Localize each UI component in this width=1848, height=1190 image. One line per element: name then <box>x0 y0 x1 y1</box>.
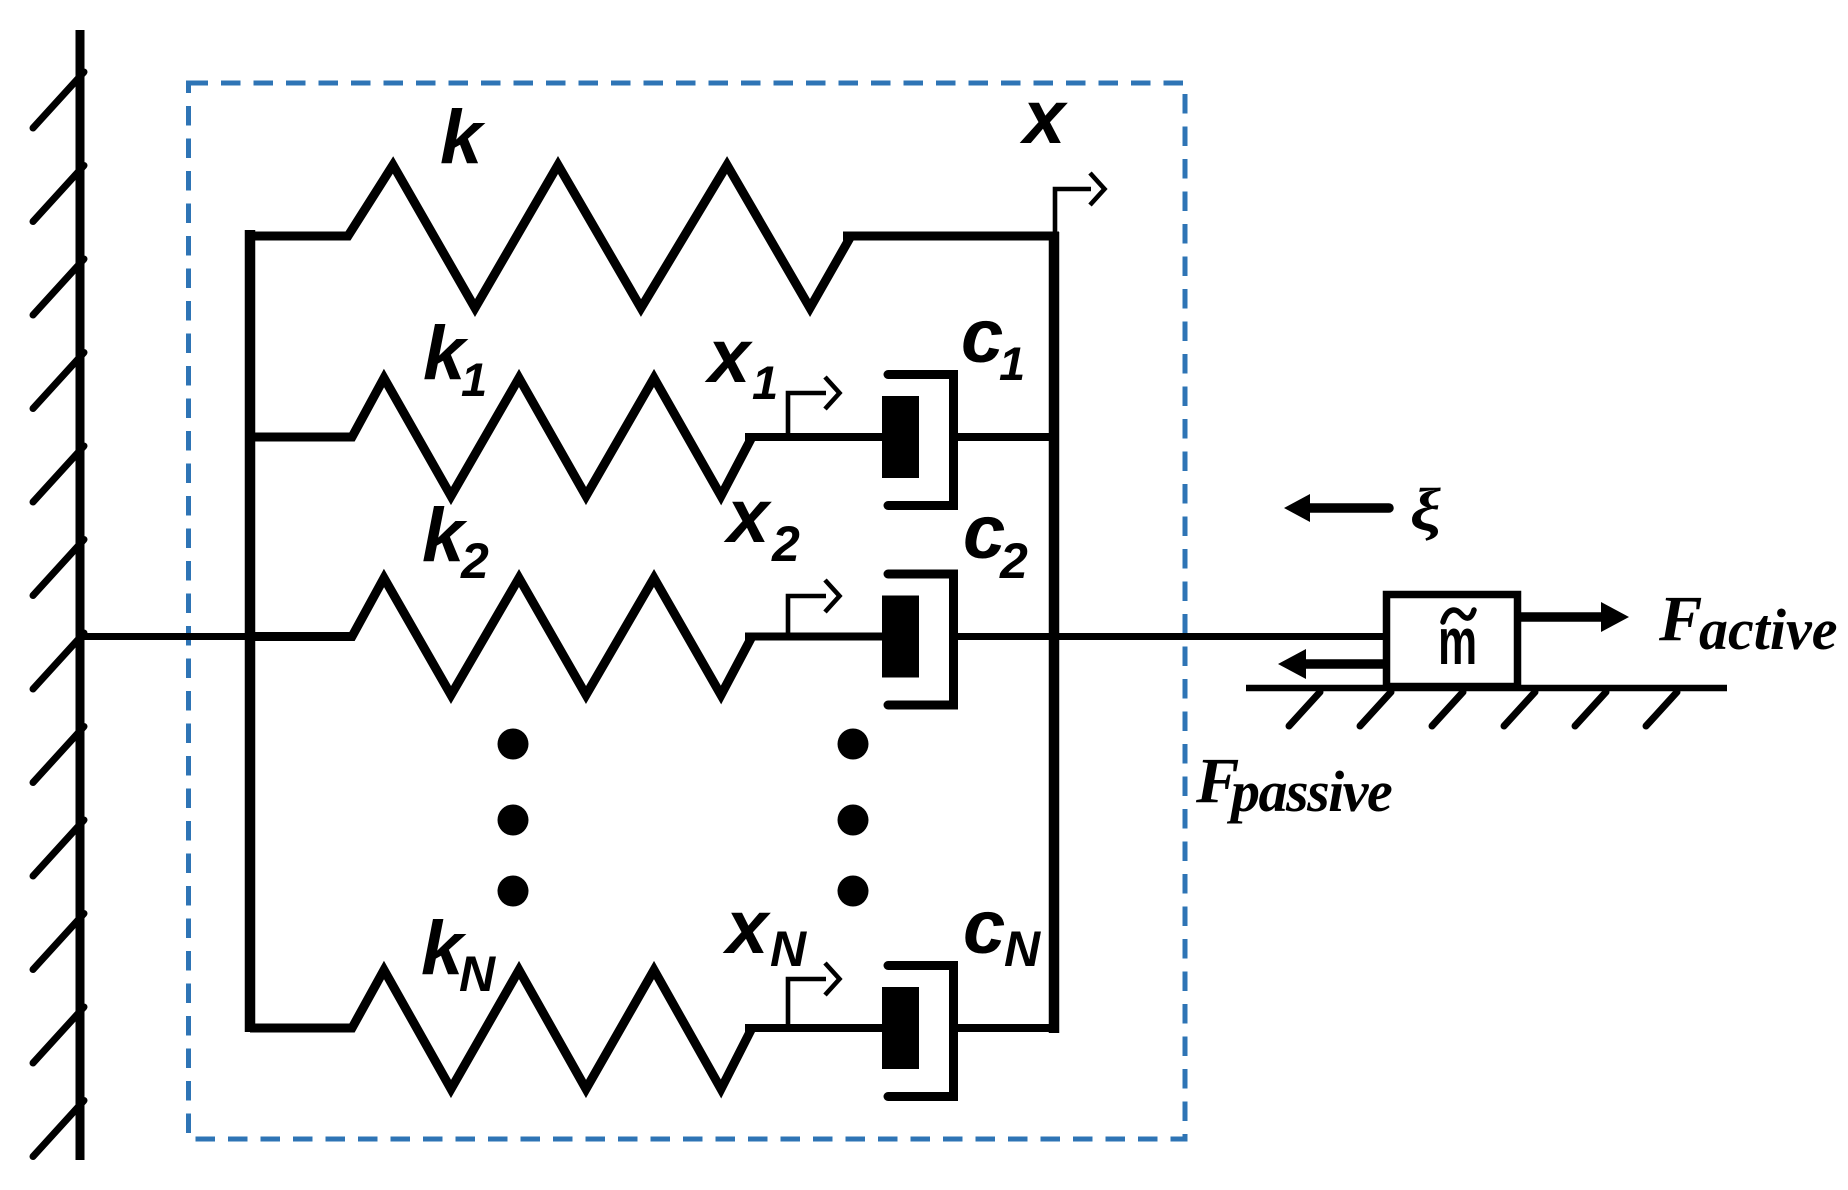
svg-text:1: 1 <box>752 356 778 409</box>
svg-text:k: k <box>440 95 486 180</box>
damper cN <box>882 966 954 1097</box>
arrow xi <box>1284 494 1389 522</box>
svg-text:c: c <box>963 885 1005 970</box>
wall <box>33 30 84 1160</box>
svg-text:2: 2 <box>460 533 489 589</box>
wire kN to damper cN <box>745 1024 884 1032</box>
node x2 arrow <box>788 580 840 634</box>
svg-text:x: x <box>704 314 753 399</box>
arrow F_passive <box>1278 649 1386 679</box>
node xN arrow <box>788 963 840 1026</box>
left bus bar <box>245 230 256 1032</box>
svg-text:c: c <box>961 294 1003 379</box>
svg-text:1: 1 <box>999 337 1025 390</box>
damper c2 <box>882 574 954 705</box>
damper c1 <box>882 375 954 506</box>
wire damper cN to right bar <box>954 1024 1055 1032</box>
label m~ <box>1438 604 1477 678</box>
svg-text:c: c <box>963 490 1005 575</box>
ellipsis dots right <box>838 729 869 907</box>
svg-text:F: F <box>1658 583 1702 655</box>
wire k1 to damper c1 <box>745 433 884 441</box>
svg-text:active: active <box>1699 597 1837 662</box>
spring kN <box>250 970 752 1089</box>
svg-text:N: N <box>459 946 496 1002</box>
spring k1 <box>250 378 752 496</box>
spring k <box>250 165 851 308</box>
wire damper c2 to mass <box>954 633 1387 640</box>
ground <box>1246 688 1727 726</box>
svg-text:x: x <box>1019 75 1068 160</box>
dashed boundary box <box>189 83 1186 1139</box>
node x1 arrow <box>788 377 840 435</box>
svg-text:N: N <box>1004 921 1041 977</box>
wire wall to left bar <box>80 633 250 640</box>
svg-text:ξ: ξ <box>1410 476 1441 543</box>
svg-text:2: 2 <box>999 533 1028 589</box>
wire spring k to right bar <box>843 232 1059 241</box>
wire damper c1 to right bar <box>954 433 1055 441</box>
wire k2 to damper c2 <box>745 633 884 641</box>
arrow F_active <box>1521 602 1629 632</box>
svg-text:passive: passive <box>1226 759 1392 824</box>
svg-text:x: x <box>722 885 771 970</box>
mass m~ <box>1387 595 1518 687</box>
svg-text:x: x <box>723 474 772 559</box>
right bus bar <box>1049 232 1060 1033</box>
svg-text:1: 1 <box>461 353 487 406</box>
node x arrow <box>1055 173 1105 234</box>
svg-text:N: N <box>770 921 807 977</box>
svg-text:2: 2 <box>771 516 800 572</box>
ellipsis dots left <box>498 729 529 907</box>
spring k2 <box>250 578 752 695</box>
